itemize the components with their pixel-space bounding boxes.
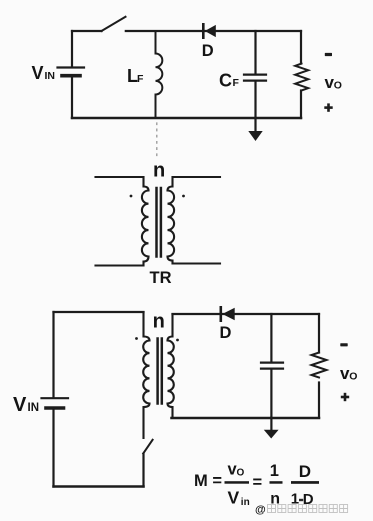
- svg-text:V: V: [32, 63, 44, 83]
- svg-text:C: C: [219, 71, 232, 91]
- svg-text:@: @: [255, 504, 266, 516]
- svg-text:in: in: [241, 497, 250, 508]
- svg-text:=: =: [253, 474, 263, 492]
- svg-text:F: F: [233, 77, 240, 89]
- svg-text:D: D: [299, 462, 311, 481]
- svg-text:n: n: [153, 311, 165, 333]
- svg-text:O: O: [349, 371, 357, 383]
- svg-text:M =: M =: [194, 472, 222, 490]
- svg-text:1: 1: [270, 462, 279, 480]
- svg-text:D: D: [220, 324, 232, 342]
- svg-text:O: O: [334, 80, 342, 92]
- svg-text:n: n: [153, 160, 165, 182]
- svg-text:V: V: [228, 488, 240, 508]
- svg-text:F: F: [137, 73, 144, 85]
- svg-text:IN: IN: [28, 402, 40, 414]
- svg-text:O: O: [237, 468, 245, 479]
- svg-text:V: V: [13, 394, 27, 416]
- svg-text:IN: IN: [45, 70, 56, 82]
- svg-text:D: D: [202, 42, 214, 60]
- svg-text:TR: TR: [150, 269, 172, 287]
